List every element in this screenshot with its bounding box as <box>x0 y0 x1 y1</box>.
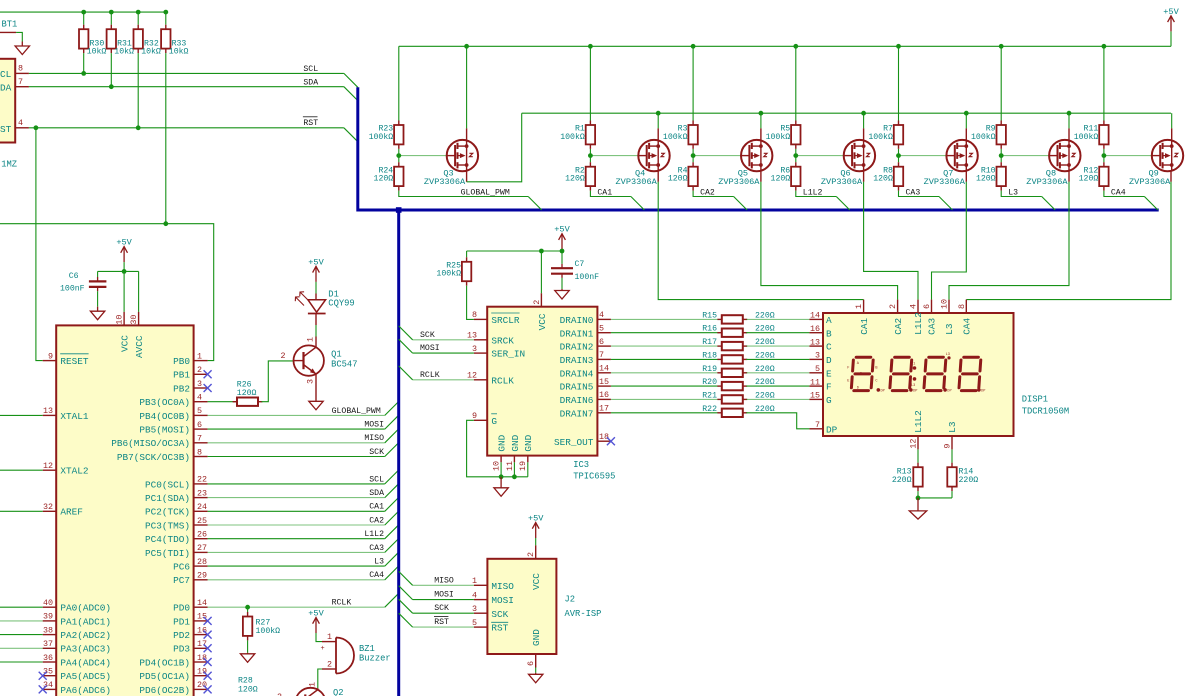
no-connect pin 15 <box>204 617 212 625</box>
wire Q3 drain to switched rail <box>467 113 522 182</box>
svg-text:CA1: CA1 <box>597 188 612 197</box>
svg-text:220Ω: 220Ω <box>959 476 979 485</box>
svg-text:20: 20 <box>197 680 207 690</box>
svg-text:IC3: IC3 <box>573 460 589 470</box>
svg-text:RCLK: RCLK <box>420 371 440 380</box>
bus entry SCL <box>344 73 358 87</box>
wire net CA1 <box>208 510 385 512</box>
power +5V above buzzer <box>308 609 324 634</box>
junction switched rail/Q7 source <box>964 111 969 116</box>
bus entry GLOBAL_PWM <box>385 402 399 416</box>
pin 2 VCC of J2 <box>535 545 537 559</box>
pin DRAIN2 of IC3 <box>597 345 611 347</box>
svg-text:1MZ: 1MZ <box>1 160 17 170</box>
pin 6 GND of J2 <box>535 654 537 668</box>
svg-text:25: 25 <box>197 516 207 526</box>
seven-segment digit 1 of DISP1 <box>851 357 873 390</box>
drain lead Q7 <box>965 171 967 182</box>
pin 3 emitter lead Q1 <box>315 374 317 401</box>
svg-text:CA2: CA2 <box>700 188 715 197</box>
wire R23 to gate node <box>398 149 400 156</box>
resistor R30 <box>79 25 88 53</box>
bus entry CA1 <box>385 497 399 511</box>
junction top-left rail x=138 <box>136 10 141 15</box>
wire MISO to J2 <box>413 584 474 586</box>
no-connect SER_OUT <box>607 437 615 445</box>
wire R13 to ground net <box>917 491 919 498</box>
pin 2 CA2 top of DISP1 <box>897 300 899 313</box>
svg-text:CA4: CA4 <box>369 571 384 580</box>
svg-text:SCK: SCK <box>420 331 435 340</box>
svg-text:5: 5 <box>599 324 604 334</box>
svg-text:22: 22 <box>197 475 207 485</box>
svg-text:8: 8 <box>18 64 23 74</box>
wire DRAIN1 to R16 <box>611 332 719 334</box>
svg-text:RESET: RESET <box>60 356 89 367</box>
svg-text:GND: GND <box>497 434 508 451</box>
bus entry MISO <box>385 429 399 443</box>
svg-text:14: 14 <box>810 311 820 321</box>
wire net RST <box>29 127 344 129</box>
no-connect pin 34 <box>39 685 47 693</box>
pin 8 SCL of left chip <box>15 72 29 74</box>
resistor R18 220 <box>717 355 747 363</box>
svg-text:AVR-ISP: AVR-ISP <box>565 609 602 619</box>
capacitor C7 <box>551 264 573 278</box>
wire R13-R14 ground link <box>918 497 952 499</box>
svg-text:PB7(SCK/OC3B): PB7(SCK/OC3B) <box>117 452 190 463</box>
svg-text:2: 2 <box>526 552 536 557</box>
bus entry CA3 <box>385 539 399 553</box>
svg-text:11: 11 <box>505 461 515 471</box>
pin 26 PC4(TDO) of MCU <box>194 538 208 540</box>
resistor R23 100k <box>394 121 403 149</box>
drain lead Q8 <box>1068 171 1070 182</box>
bus entry MOSI to J2 <box>399 586 413 600</box>
wire DRAIN3 to R18 <box>611 358 719 360</box>
wire +5V top rail <box>399 45 1171 47</box>
pin 1 CA1 top of DISP1 <box>863 300 865 313</box>
svg-text:100kΩ: 100kΩ <box>766 132 791 142</box>
svg-text:C: C <box>875 380 877 384</box>
pin 38 PA2(ADC2) of MCU <box>43 634 57 636</box>
wire GND pin to ground bus <box>500 462 502 477</box>
svg-text:10kΩ: 10kΩ <box>141 46 161 56</box>
ground R27 <box>240 653 254 663</box>
pin 14 PD0 of MCU <box>194 606 208 608</box>
ground C6 <box>90 307 104 320</box>
wire switched rail to Q4 source <box>657 113 659 128</box>
pin 8 PB7(SCK/OC3B) of MCU <box>194 456 208 458</box>
svg-text:3: 3 <box>197 379 202 389</box>
transistor Q1 <box>294 345 324 375</box>
wire to R25 <box>466 251 468 257</box>
wire MOSI to IC3 <box>413 352 474 354</box>
svg-text:PA2(ADC2): PA2(ADC2) <box>60 630 111 641</box>
svg-text:DISP1: DISP1 <box>1022 395 1048 405</box>
wire +5V stem to VCC node <box>123 262 125 271</box>
svg-text:SCK: SCK <box>491 609 508 620</box>
svg-text:E: E <box>826 368 832 379</box>
svg-text:CA4: CA4 <box>962 318 973 335</box>
svg-text:DRAIN4: DRAIN4 <box>560 368 594 379</box>
svg-text:SCL: SCL <box>369 475 384 484</box>
pin 37 PA3(ADC3) of MCU <box>43 647 57 649</box>
svg-text:L1: L1 <box>911 362 915 366</box>
svg-text:1: 1 <box>472 576 477 586</box>
pin 30 AVCC of MCU <box>138 312 140 326</box>
no-connect pin 17 <box>204 644 212 652</box>
svg-text:PB0: PB0 <box>173 356 190 367</box>
pin 1 MISO of J2 <box>474 584 488 586</box>
svg-text:10: 10 <box>940 299 950 309</box>
transistor Q2 <box>295 688 325 696</box>
bus entry RST <box>344 128 358 142</box>
wire gate node to R6 <box>795 156 797 163</box>
pin 34 PA6(ADC6) of MCU <box>43 688 57 690</box>
svg-text:6: 6 <box>526 661 536 666</box>
pin 9 RESET of MCU <box>43 360 57 362</box>
svg-text:12: 12 <box>467 371 477 381</box>
pin 9 G of IC3 <box>474 419 487 421</box>
svg-text:R22: R22 <box>702 405 717 414</box>
svg-text:7: 7 <box>18 77 23 87</box>
seven-segment digit 4 of DISP1 <box>959 357 981 390</box>
svg-text:3: 3 <box>815 351 820 361</box>
pin 2 VCC of IC3 <box>540 293 542 307</box>
svg-text:2: 2 <box>888 304 898 309</box>
wire R11 to gate node <box>1103 149 1105 156</box>
wire MOSI to J2 <box>413 599 474 601</box>
resistor R26 leads wire <box>208 401 238 403</box>
svg-text:PD4(OC1B): PD4(OC1B) <box>139 657 190 668</box>
svg-text:ZVP3306A: ZVP3306A <box>924 177 966 187</box>
svg-text:VCC: VCC <box>531 573 542 590</box>
pin 15 G of DISP1 <box>809 398 823 400</box>
svg-text:MOSI: MOSI <box>364 421 384 430</box>
svg-text:R27: R27 <box>256 618 271 627</box>
seven-segment digit 3 of DISP1 <box>924 357 946 390</box>
wire R31 to net <box>110 53 112 87</box>
svg-text:ZVP3306A: ZVP3306A <box>821 177 863 187</box>
wire Q4 drain to display <box>658 182 863 300</box>
wire Q8 drain to display <box>949 182 1069 300</box>
transistor Q7 ZVP3306A <box>946 140 977 171</box>
svg-text:R21: R21 <box>702 391 717 400</box>
resistor R2 120 <box>586 162 595 190</box>
wire R17 to DISP1 <box>746 345 809 347</box>
pin DRAIN4 of IC3 <box>597 372 611 374</box>
svg-text:SCK: SCK <box>369 448 384 457</box>
svg-text:2: 2 <box>532 300 542 305</box>
pin 1 collector lead Q1 <box>315 313 317 325</box>
wire PA to pin 37 <box>0 647 43 649</box>
svg-text:12: 12 <box>43 461 53 471</box>
svg-text:L1L2: L1L2 <box>913 410 924 433</box>
wire GND pin to ground bus <box>527 462 529 477</box>
svg-text:+5V: +5V <box>116 238 132 248</box>
svg-text:10kΩ: 10kΩ <box>169 46 189 56</box>
svg-text:R16: R16 <box>702 325 717 334</box>
svg-text:SDA: SDA <box>369 489 384 498</box>
svg-text:35: 35 <box>43 667 53 677</box>
svg-text:100nF: 100nF <box>575 273 600 282</box>
svg-text:32: 32 <box>43 502 53 512</box>
wire BT1 to ground <box>16 32 22 41</box>
svg-text:L1L2: L1L2 <box>803 188 823 197</box>
svg-text:6: 6 <box>922 304 932 309</box>
pin DRAIN1 of IC3 <box>597 332 611 334</box>
svg-text:13: 13 <box>810 337 820 347</box>
wire switched rail to Q5 source <box>760 113 762 128</box>
wire net CA3 <box>208 551 385 553</box>
svg-text:16: 16 <box>197 625 207 635</box>
no-connect pin 2 <box>204 370 212 378</box>
transistor Q9 ZVP3306A <box>1152 140 1183 171</box>
svg-text:+: + <box>321 645 325 653</box>
pin 14 A of DISP1 <box>809 318 823 320</box>
wire D1 cathode to Q1 collector <box>315 325 317 337</box>
svg-text:9: 9 <box>48 351 53 361</box>
svg-text:SRCLR: SRCLR <box>491 315 520 326</box>
svg-text:+5V: +5V <box>554 225 570 235</box>
transistor Q6 ZVP3306A <box>844 140 875 171</box>
svg-text:1: 1 <box>327 632 332 642</box>
pin 11 GND of IC3 <box>513 456 515 463</box>
svg-text:RST: RST <box>303 119 318 128</box>
bus entry SDA <box>385 484 399 498</box>
svg-text:DP: DP <box>981 390 985 394</box>
no-connect pin 18 <box>204 658 212 666</box>
wire net GLOBAL_PWM <box>208 414 385 416</box>
pin 22 PC0(SCL) of MCU <box>194 483 208 485</box>
svg-text:B: B <box>826 328 832 339</box>
svg-text:100kΩ: 100kΩ <box>868 132 893 142</box>
svg-text:CQY99: CQY99 <box>328 299 354 309</box>
resistor R13 220 <box>913 463 922 491</box>
svg-text:18: 18 <box>197 653 207 663</box>
pin 13 C of DISP1 <box>809 345 823 347</box>
wire PA to pin 39 <box>0 620 43 622</box>
wire Q7 drain to display <box>932 182 967 300</box>
transistor Q3 ZVP3306A <box>447 140 478 171</box>
wire net SDA <box>29 86 344 88</box>
svg-text:8: 8 <box>197 447 202 457</box>
svg-text:L1L2: L1L2 <box>364 530 384 539</box>
wire gate Q4 <box>590 155 638 157</box>
svg-text:9: 9 <box>472 411 477 421</box>
resistor R12 120 <box>1099 162 1108 190</box>
wire net MOSI <box>208 428 385 430</box>
wire R25 to SRCLR <box>467 286 474 320</box>
svg-text:1: 1 <box>854 304 864 309</box>
svg-text:L3: L3 <box>374 558 384 567</box>
wire buzzer pin 2 to Q2 collector <box>318 669 322 688</box>
wire net MISO <box>208 442 385 444</box>
svg-text:120Ω: 120Ω <box>771 175 791 184</box>
pin 25 PC3(TMS) of MCU <box>194 524 208 526</box>
junction top-left rail x=84 <box>81 10 86 15</box>
resistor R20 220 <box>717 382 747 390</box>
wire RCLK to IC3 <box>413 379 474 381</box>
svg-text:1: 1 <box>197 351 202 361</box>
wire net label CA4 <box>1104 191 1145 197</box>
bus entry SCK to IC3 <box>399 326 413 340</box>
svg-text:PB6(MISO/OC3A): PB6(MISO/OC3A) <box>111 438 190 449</box>
svg-text:CA4: CA4 <box>1111 188 1126 197</box>
svg-text:RCLK: RCLK <box>332 599 352 608</box>
pin 9 L3 bottom of DISP1 <box>951 436 953 449</box>
svg-text:28: 28 <box>197 557 207 567</box>
svg-text:AVCC: AVCC <box>134 335 145 358</box>
pin 18 SER_OUT of IC3 <box>597 440 611 442</box>
no-connect pin 35 <box>39 672 47 680</box>
pin 13 XTAL1 of MCU <box>43 414 57 416</box>
svg-text:PD2: PD2 <box>173 630 190 641</box>
svg-text:120Ω: 120Ω <box>668 175 688 184</box>
wire switched rail to Q7 source <box>965 113 967 128</box>
svg-text:120Ω: 120Ω <box>565 175 585 184</box>
wire DRAIN2 to R17 <box>611 345 719 347</box>
svg-text:C6: C6 <box>69 272 79 281</box>
wire gate node to R24 <box>398 156 400 163</box>
svg-text:5: 5 <box>815 364 820 374</box>
wire +5V top-left rail <box>0 11 166 13</box>
svg-text:F: F <box>826 382 832 393</box>
junction switched rail/Q8 source <box>1067 111 1072 116</box>
svg-text:120Ω: 120Ω <box>238 685 258 694</box>
ground C7 <box>555 289 569 299</box>
buzzer BZ1 <box>321 638 355 674</box>
wire to AVCC pin <box>138 271 140 312</box>
svg-text:MISO: MISO <box>364 434 384 443</box>
svg-text:SER_IN: SER_IN <box>491 349 525 360</box>
resistor R5 100k <box>791 121 800 149</box>
wire rail to R1 <box>589 46 591 120</box>
pin 7 SDA of left chip <box>15 86 29 88</box>
svg-text:SDA: SDA <box>303 79 318 88</box>
decimal point dot digit 2 <box>909 388 913 392</box>
svg-text:DRAIN6: DRAIN6 <box>560 395 594 406</box>
wire RCLK to R27 <box>247 607 249 612</box>
svg-text:XTAL1: XTAL1 <box>60 411 89 422</box>
junction VCC node <box>122 269 127 274</box>
svg-text:GLOBAL_PWM: GLOBAL_PWM <box>461 188 510 197</box>
junction top-left rail x=166 <box>163 10 168 15</box>
drain lead Q4 <box>657 171 659 182</box>
no-connect pin 3 <box>204 384 212 392</box>
wire +5V node horizontal <box>467 250 562 252</box>
svg-text:2: 2 <box>197 365 202 375</box>
wire R30 to net <box>83 53 85 73</box>
decimal point dot digit 3 <box>943 388 947 392</box>
transistor Q5 ZVP3306A <box>741 140 772 171</box>
svg-text:19: 19 <box>518 461 528 471</box>
junction rail/R9 <box>999 44 1004 49</box>
svg-text:VCC: VCC <box>120 335 131 352</box>
svg-text:15: 15 <box>197 612 207 622</box>
pin 17 PD3 of MCU <box>194 647 208 649</box>
svg-text:7: 7 <box>599 350 604 360</box>
svg-text:PB5(MOSI): PB5(MOSI) <box>139 425 190 436</box>
bus entry RST to J2 <box>399 613 413 627</box>
junction rail/Q3 source <box>464 44 469 49</box>
svg-text:PD0: PD0 <box>173 603 190 614</box>
wire DISP1 to R14 <box>951 449 953 462</box>
wire switched rail GLOBAL_PWM output <box>522 112 1171 114</box>
wire RST to RESET pin <box>36 128 43 361</box>
svg-text:10: 10 <box>492 461 502 471</box>
wire C6 to ground <box>97 291 99 307</box>
svg-text:MISO: MISO <box>491 581 514 592</box>
bus vertical segment center <box>397 210 400 696</box>
svg-text:DRAIN3: DRAIN3 <box>560 355 594 366</box>
svg-text:R17: R17 <box>702 338 717 347</box>
junction gate node Q8 <box>999 153 1004 158</box>
resistor R17 220 <box>717 342 747 350</box>
resistor R21 220 <box>717 395 747 403</box>
svg-text:Q2: Q2 <box>333 688 344 696</box>
junction top-left rail x=111 <box>109 10 114 15</box>
bus entry CA3 top <box>939 197 953 211</box>
wire rail to R11 <box>1103 46 1105 120</box>
svg-text:100nF: 100nF <box>60 285 85 294</box>
no-connect pin 19 <box>204 672 212 680</box>
svg-text:PD1: PD1 <box>173 616 190 627</box>
svg-text:3: 3 <box>472 344 477 354</box>
pin 19 PD5(OC1A) of MCU <box>194 675 208 677</box>
svg-text:DA: DA <box>0 83 12 94</box>
svg-text:ZVP3306A: ZVP3306A <box>1026 177 1068 187</box>
bus entry CA4 <box>385 566 399 580</box>
wire R20 to DISP1 <box>746 385 809 387</box>
bus entry MISO to J2 <box>399 571 413 585</box>
svg-text:DRAIN5: DRAIN5 <box>560 382 594 393</box>
svg-text:11: 11 <box>810 377 820 387</box>
wire R5 to gate node <box>795 149 797 156</box>
wire rail to R9 <box>1000 46 1002 120</box>
svg-text:ZVP3306A: ZVP3306A <box>1129 177 1171 187</box>
svg-text:R20: R20 <box>702 378 717 387</box>
svg-text:VCC: VCC <box>537 313 548 330</box>
display DISP1 body <box>823 313 1014 436</box>
pin 35 PA5(ADC5) of MCU <box>43 675 57 677</box>
pin 18 PD4(OC1B) of MCU <box>194 661 208 663</box>
wire net CA4 <box>208 579 385 581</box>
svg-text:5: 5 <box>197 406 202 416</box>
wire left to pin 32 <box>0 510 43 512</box>
svg-text:3: 3 <box>472 604 477 614</box>
wire +5V rail riser <box>1170 31 1172 46</box>
svg-text:A: A <box>826 315 832 326</box>
bus entry CA2 <box>385 511 399 525</box>
pin 1 collector lead Q2 <box>317 688 319 690</box>
pin 28 PC6 of MCU <box>194 565 208 567</box>
resistor R25 100k <box>462 257 471 285</box>
pin 3 PB2 of MCU <box>194 387 208 389</box>
svg-text:10kΩ: 10kΩ <box>114 46 134 56</box>
wire R33 net to PB0 <box>0 224 214 361</box>
power +5V above MCU <box>116 238 132 263</box>
junction gate node Q3 <box>396 153 401 158</box>
power +5V above J2 <box>528 514 544 539</box>
apostrophe LED L3 dot <box>947 356 950 359</box>
wire rail to R5 <box>795 46 797 120</box>
svg-text:100kΩ: 100kΩ <box>256 626 281 636</box>
wire switched rail to Q8 source <box>1068 113 1070 128</box>
wire R18 to DISP1 <box>746 358 809 360</box>
svg-text:GLOBAL_PWM: GLOBAL_PWM <box>332 407 381 416</box>
